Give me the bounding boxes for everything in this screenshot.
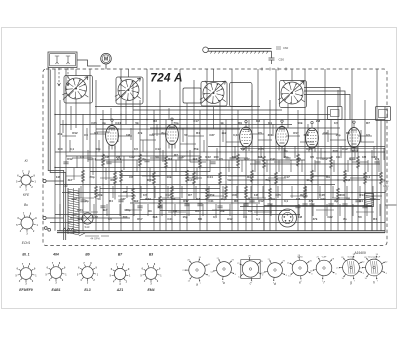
svg-text:50: 50 [346,197,350,201]
svg-text:C5: C5 [108,217,112,221]
mains plug terminal 1 [44,227,47,230]
resistor R7 [296,154,299,167]
wafer pointer arrow 2 [116,78,141,101]
svg-text:Bl. 1: Bl. 1 [22,253,29,257]
svg-text:R17: R17 [137,217,143,221]
svg-text:C22: C22 [327,215,333,219]
svg-text:1M: 1M [296,197,301,201]
tube B2 (EF9) [166,125,179,145]
wire h7 [55,151,385,153]
svg-text:1k: 1k [220,121,224,125]
IF can T1 inner [331,110,340,117]
mains terminal 2 [43,216,46,219]
wire v9 [102,110,104,231]
capacitor C19 [362,206,367,208]
svg-text:25k: 25k [209,193,214,197]
svg-text:10k: 10k [166,175,171,179]
capacitor C27 [184,204,189,206]
svg-text:0,3: 0,3 [346,178,351,182]
wire v1 [54,69,56,231]
svg-text:0,1: 0,1 [256,217,260,221]
wire h10 [120,175,380,177]
terminal wire 1 [46,180,64,182]
wire avc L3 [304,95,350,120]
svg-text:0,1: 0,1 [366,175,371,179]
svg-text:0,1: 0,1 [349,157,353,161]
wire h18 [66,155,200,157]
svg-text:A19409: A19409 [353,251,366,255]
svg-text:2k2: 2k2 [222,131,227,135]
wire v48 [357,147,359,231]
capacitor C18 [328,204,333,206]
resistor R9 [356,156,359,169]
svg-text:300: 300 [268,133,273,137]
capacitor C10 [349,158,354,160]
assembly diagram a [182,257,211,285]
svg-text:B3: B3 [149,253,153,257]
wire h15 [55,214,300,216]
wire h20 [90,171,210,173]
tube top caps [111,118,355,124]
resistor R10 [81,170,84,183]
capacitor C17 [295,206,300,208]
capacitor C25 [342,204,347,206]
svg-text:Gsh/grt: Gsh/grt [347,256,355,259]
wafer feed stub 2 [128,69,130,77]
chassis line ticks [262,68,286,71]
svg-text:gr: gr [385,190,387,193]
wire v6 [82,114,84,231]
wire v49 [364,100,366,231]
wire v8 [95,80,97,231]
wire v27 [219,100,221,231]
output transformer T2 [365,194,374,207]
svg-text:C41: C41 [323,131,329,135]
dashed wire drop b [67,68,69,86]
svg-text:1M: 1M [254,193,259,197]
arrowhead drop a [58,83,61,86]
capacitor C15 [197,204,202,206]
svg-text:15p: 15p [284,155,289,159]
capacitor C13 [118,200,123,202]
connector diagram ECH1 [16,213,38,235]
svg-text:8p: 8p [334,199,338,203]
svg-text:6k8: 6k8 [196,197,201,201]
svg-text:C22: C22 [129,155,135,159]
wire motor stem [105,64,107,69]
resistor R11 [119,170,122,183]
resistor R2 [138,154,141,167]
transformer core line [73,188,75,234]
svg-text:R12: R12 [322,157,328,161]
capacitor C28 [249,200,254,202]
svg-text:EM4: EM4 [148,288,155,292]
svg-text:C22: C22 [149,133,155,137]
svg-text:C8: C8 [129,175,133,179]
wire v3 [65,69,67,187]
wire v15 [139,100,141,231]
wire h5 [60,124,292,126]
svg-text:0,5: 0,5 [213,215,217,219]
svg-text:EAB1: EAB1 [51,288,60,292]
capacitor C8 [285,158,290,160]
dial rod hatching [210,51,268,53]
resistor R23 [205,188,208,201]
svg-text:a: a [196,283,198,287]
pilot lamp LA1 [82,213,93,224]
connector diagram KFE [16,171,36,191]
dashed wire drop a [58,68,60,86]
wire v17 [153,110,155,231]
svg-text:6k8: 6k8 [153,215,158,219]
svg-text:2M: 2M [316,119,321,123]
wire v13 [125,101,127,125]
wire v34 [263,120,265,231]
assembly diagram b [210,258,236,284]
capacitor C11 [374,162,379,164]
svg-text:0,5: 0,5 [334,121,339,125]
assembly diagram h [359,254,388,283]
wire v21 [179,69,181,231]
coil can L3 [201,82,227,107]
capacitor C4 [177,158,182,160]
svg-text:C37: C37 [179,155,185,159]
wire v16 [146,69,148,200]
svg-text:C41: C41 [270,157,276,161]
antenna terminal box inner [50,54,76,66]
wire h4 [100,119,385,121]
svg-text:300: 300 [232,155,237,159]
svg-text:R9: R9 [238,121,242,125]
wire h13 [140,199,380,201]
capacitor C23 [80,200,85,202]
svg-text:0,5: 0,5 [366,133,370,137]
capacitor C29 [302,204,307,206]
wire h17 [208,146,385,148]
svg-text:C5: C5 [159,199,163,203]
resistor R5 [236,154,239,167]
wire h11 [55,184,335,186]
svg-text:8p: 8p [161,131,165,135]
svg-text:0,5: 0,5 [246,197,250,201]
assembly diagram c [237,256,264,285]
wire v35 [269,100,271,231]
resistor R17 [310,170,313,183]
motor M outer [101,53,112,64]
svg-text:0,5: 0,5 [134,147,139,151]
svg-text:50k: 50k [95,147,100,151]
svg-text:100: 100 [57,147,62,151]
svg-text:R17: R17 [293,131,299,135]
capacitor C16 [243,204,248,206]
svg-text:R17: R17 [244,157,250,161]
svg-text:C60: C60 [283,46,289,50]
wire v19 [165,120,167,231]
svg-text:R4: R4 [359,199,363,203]
svg-text:724 A: 724 A [150,71,183,85]
wire junction dots [54,114,365,223]
svg-text:25k: 25k [57,132,62,136]
tube base diagram EF9/EF9 [15,264,37,286]
svg-text:C44: C44 [115,121,121,125]
svg-text:20p: 20p [89,175,94,179]
wire h1 [95,106,260,108]
svg-text:d: d [274,282,276,286]
frame bus outer [48,68,64,241]
svg-text:47k: 47k [313,217,318,221]
wire v44 [330,120,332,231]
svg-text:10k: 10k [219,209,224,213]
wire v47 [351,69,353,231]
svg-text:R8: R8 [297,157,301,161]
ground bus double line b [57,232,385,234]
dashed chassis boundary [43,69,387,246]
svg-text:0,2: 0,2 [248,209,253,213]
svg-text:0,05: 0,05 [306,147,312,151]
resistor R8 [329,156,332,169]
svg-text:C17: C17 [284,175,290,179]
wire h23 [130,202,260,204]
svg-text:0,02: 0,02 [92,215,98,219]
wafer pointer arrow 3 [201,81,226,104]
wire h25 [70,217,130,219]
assembly diagram d [261,259,287,285]
wire h16 [150,127,340,129]
component value labels 2 [67,131,379,221]
wire v11 [114,146,116,200]
svg-text:R8: R8 [346,131,350,135]
wire dial to C50 [271,51,273,58]
svg-text:S13: S13 [85,225,90,229]
svg-text:8p: 8p [102,121,106,125]
resistor R26 [303,186,306,199]
svg-text:C9: C9 [271,197,275,201]
svg-text:C5: C5 [258,131,262,135]
svg-text:60: 60 [148,209,152,213]
svg-text:8p: 8p [85,199,89,203]
svg-text:C37: C37 [370,197,376,201]
svg-text:300: 300 [171,197,176,201]
resistor R25 [268,188,271,201]
svg-text:R7: R7 [174,153,178,157]
wire v25 [206,69,208,231]
wire v12 [120,69,122,231]
capacitor C26 [355,200,360,202]
svg-text:0,02: 0,02 [233,133,239,137]
svg-text:70p: 70p [265,178,270,182]
svg-text:1M: 1M [56,175,61,179]
wafer feed stub 3 [213,69,215,82]
tube base diagram EM4 [140,264,162,286]
wire v31 [245,147,247,231]
IF can T2 inner [379,110,388,118]
assembly diagram e [287,255,313,283]
wire h21 [230,179,385,181]
svg-text:C41: C41 [208,199,214,203]
svg-text:0,1: 0,1 [92,157,96,161]
svg-text:2k2: 2k2 [193,157,198,161]
svg-text:R17: R17 [183,199,189,203]
svg-text:R12: R12 [72,131,78,135]
wire h2 [133,109,282,111]
svg-text:B6: B6 [85,253,89,257]
tube base diagram EL3 [77,263,99,285]
wafer feed stub 1 [75,69,77,76]
coil can L1 [64,76,93,104]
wafer pointer arrow 1 [63,77,88,100]
wire v28 [225,120,227,200]
svg-text:C17: C17 [193,119,199,123]
wire v43 [324,69,326,231]
svg-text:47k: 47k [138,131,143,135]
speaker lead wire [385,204,397,206]
resistor R20 [94,186,97,199]
svg-text:15p: 15p [221,197,226,201]
svg-text:6k8: 6k8 [304,133,309,137]
svg-text:1M: 1M [241,147,246,151]
svg-text:0,02: 0,02 [145,197,151,201]
wire v39 [297,110,299,231]
resistor R32 [192,172,195,185]
resistor R4 [198,156,201,169]
tube base diagram EAB1 [45,263,67,285]
svg-text:0,1: 0,1 [94,131,98,135]
wafer pointer arrow 4 [279,81,304,104]
svg-text:6k8: 6k8 [258,155,263,159]
resistor R31 [113,172,116,185]
wire v41 [311,148,313,231]
mains terminal 1 [43,179,46,182]
svg-text:e: e [299,280,301,284]
resistor R27 [336,188,339,201]
svg-text:Bu: Bu [24,203,28,207]
wire v51 [376,69,378,231]
svg-text:300: 300 [123,215,128,219]
svg-text:50: 50 [184,133,188,137]
tube B3 (EAB1) [240,127,253,147]
capacitor C2 [106,162,111,164]
svg-text:300: 300 [332,149,337,153]
resistor R28 [158,196,161,209]
capacitor C22 [100,206,105,208]
svg-text:50: 50 [358,215,362,219]
antenna symbol A2 [66,56,70,64]
capacitor C50 [269,58,275,64]
wire v18 [159,90,161,231]
wire v37 [281,146,283,207]
svg-text:5k: 5k [135,121,139,125]
wire v5 [75,99,77,128]
wire v30 [237,110,239,231]
svg-text:C9: C9 [336,155,340,159]
wire v2 [59,100,61,231]
band switch wafer S1c [203,83,224,104]
wire antenna to motor [77,60,101,66]
svg-text:47k: 47k [117,157,122,161]
wire avc L1 [304,88,340,107]
svg-text:C9: C9 [84,133,88,137]
svg-text:0,2: 0,2 [188,178,193,182]
svg-text:R4: R4 [168,157,172,161]
wire v46 [344,110,346,231]
svg-text:0,1: 0,1 [284,199,288,203]
resistor R18 [343,170,346,183]
capacitor C3 [144,160,149,162]
band switch wafer S1a [66,78,87,99]
svg-text:L.Sp: L.Sp [384,185,390,188]
svg-text:1M: 1M [298,215,303,219]
wire v24 [199,110,201,231]
wire v45 [337,90,339,231]
svg-text:0,1: 0,1 [268,121,273,125]
svg-text:100: 100 [231,193,236,197]
svg-text:R4: R4 [196,131,200,135]
component value labels [56,119,377,213]
IF can T2 outer [376,107,391,121]
band switch wafer S1b [118,80,139,101]
mains switch [79,233,109,236]
svg-text:Amp: Amp [384,180,390,183]
capacitor C21 [217,206,222,208]
wire v52 [380,120,382,231]
svg-text:g: g [350,280,352,284]
svg-text:Gewogen/LF: Gewogen/LF [368,257,381,259]
svg-text:C50: C50 [279,58,285,62]
tube B4 (EF9) [276,127,289,147]
svg-text:AZ1: AZ1 [116,288,124,292]
svg-text:C22: C22 [71,197,77,201]
coil can L4 [280,81,307,108]
svg-text:47k: 47k [309,199,314,203]
resistor R1 [101,154,104,167]
capacitor C1 [87,158,92,160]
wire v7 [89,69,91,211]
motor M inner [102,55,110,63]
wire h9 [55,167,240,169]
svg-text:C9: C9 [80,155,84,159]
svg-text:0,3: 0,3 [256,119,261,123]
svg-text:60: 60 [110,178,114,182]
resistor R21 [131,188,134,201]
svg-text:C22: C22 [320,197,326,201]
svg-text:50: 50 [97,197,101,201]
wire h22 [100,188,220,190]
tube base diagram AZ1 [110,265,131,286]
capacitor C9 [315,162,320,164]
svg-text:R12: R12 [258,199,264,203]
wire v29 [231,69,233,231]
wire v38 [287,104,289,128]
capacitor C14 [157,206,162,208]
resistor R6 [262,156,265,169]
wire v33 [257,69,259,200]
wire stubs horizontal [62,132,382,212]
svg-text:R4: R4 [373,217,377,221]
wire v36 [275,69,277,231]
assembly diagram f [310,257,337,283]
wire v10 [108,146,110,231]
svg-text:50: 50 [155,155,159,159]
svg-text:50k: 50k [297,121,302,125]
chassis bus upper [50,222,385,224]
wire v20 [171,145,173,231]
capacitor C20 [137,206,142,208]
svg-text:15p: 15p [183,215,188,219]
dial drive pulley [203,47,209,53]
tube B1 (ECH) [106,126,119,146]
svg-text:C37: C37 [120,197,126,201]
svg-text:b: b [223,281,225,285]
